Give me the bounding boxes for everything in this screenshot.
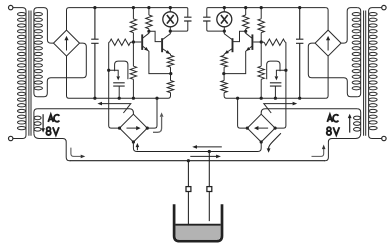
current arrow annotation at B2 top [97,102,130,113]
capacitor C1 [91,8,98,99]
current arrow at left bus2 corner [71,148,85,159]
resistor R2 [146,8,152,32]
wire Q1 collector to Q2 base [149,31,161,41]
terminal bottom-left [9,136,13,140]
junction B2 left corner [118,127,121,130]
junction lamp bottom node [169,30,172,33]
AC 8V arrow left (down) [41,114,45,132]
top supply rail [69,8,188,18]
bridge rectifier B2 [120,114,148,142]
transformer core [29,11,31,136]
current arrow at B2 bottom lead [136,143,140,150]
junction B2 feed bus [155,97,158,100]
resistor R4 [167,74,173,93]
bridge rectifier B1 [54,30,80,56]
wire B2 bottom to bus1 [133,142,137,152]
transformer T1 left: primary winding [13,8,26,139]
junction Q1 collector node [147,30,150,33]
junction B2 right corner [146,127,149,130]
transistor Q2 [162,31,170,55]
wire B2 right corner up to bus [147,98,157,128]
left electrode wire [187,161,189,239]
lower distribution bus y=98 [69,93,171,99]
junction Q1 base node [132,40,135,43]
wire secondary top lead to bridge B1 left [37,8,53,44]
resistor R1 [130,8,136,42]
wire 8V winding bottom lead down to bottom bus [34,133,71,160]
wire 8V winding top lead to bridge B2 top [37,109,133,114]
transistor Q1 [133,31,170,73]
liquid in beaker [176,225,221,240]
junction probe bottom bus [118,97,121,100]
capacitor C2 [170,17,191,31]
wire secondary bottom lead to bridge B1 right [37,43,86,97]
long vertical wire from R5 to bridge B2 left [109,42,120,128]
right half: mirrored copy of left-half circuit (transformer T2, bridges B3/B4, lamp X2, transistors Q3/Q4, resistors, capacitors) [203,5,386,160]
resistor R3 [167,55,173,73]
gray current arrow at B2 right [153,112,164,132]
junction lamp rail [169,6,172,9]
resistor R5 horizontal [109,39,134,45]
current arrow left on bus1 [192,145,222,149]
right electrode wire [208,152,210,222]
transformer secondary upper winding [34,8,43,97]
junction R1 rail [132,6,135,9]
label AC right [327,115,338,122]
junction C1 bottom bus [93,97,96,100]
resistor R6 below R1 [130,42,136,98]
current arrow at right bus2 corner (up) [312,145,326,157]
junction R6 bottom bus [132,97,135,100]
label 8V left [46,127,59,135]
junction right electrode bus1 [208,150,211,153]
junction left electrode bus2 [187,159,190,162]
junction B2 bottom corner [132,140,135,143]
wire B1 top to rail [67,8,70,31]
current arrow at B2b bottom right (down) [267,133,281,153]
bus1 between bridge bottoms [137,151,258,153]
beaker [174,204,222,241]
transformer secondary lower 8V winding [34,109,41,134]
label 8V right [327,127,340,135]
terminal top-left [9,5,13,9]
junction R3 R4 emitter node [169,72,172,75]
AC 8V arrow right (up) [348,114,352,133]
left electrode connector [186,187,191,192]
sensor probe component [109,61,128,98]
right electrode connector [207,187,212,192]
wire B1 bottom to lower bus [67,56,70,98]
junction probe tap [107,69,110,72]
label AC left [48,115,59,122]
current arrow right on bus2 [190,155,221,159]
junction R2 rail [147,6,150,9]
lamp X1 [163,8,178,32]
junction C1 top rail [93,6,96,9]
bus2 between 8V windings [70,160,325,162]
